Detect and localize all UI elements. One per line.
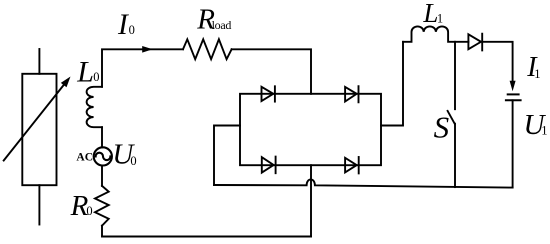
svg-text:1: 1	[437, 11, 443, 25]
variable resistor (surge arrester) top lead	[38, 49, 40, 74]
wire: L0 to AC source	[101, 127, 103, 147]
I0 current arrowhead	[142, 46, 153, 53]
diode D2 triangle (bridge top right)	[345, 87, 357, 102]
svg-text:0: 0	[130, 154, 136, 168]
inductor L0 coil	[87, 87, 102, 127]
switch S blade	[448, 111, 455, 124]
capacitor top plate	[508, 93, 519, 95]
svg-text:0: 0	[129, 23, 135, 37]
wire: bridge right output up to L1	[381, 42, 403, 126]
diode D2 cathode bar	[358, 86, 360, 102]
svg-text:AC: AC	[76, 152, 93, 164]
svg-text:0: 0	[93, 70, 99, 84]
diode D4 cathode bar	[358, 157, 360, 173]
wire: capacitor to mid rail	[512, 100, 514, 187]
wire: D5 to output branch corner	[482, 42, 512, 81]
diode D5 cathode bar	[481, 34, 483, 51]
diode D1 cathode bar	[274, 86, 276, 101]
capacitor bottom plate	[506, 99, 521, 101]
wire: bridge left output to mid rail	[214, 126, 240, 186]
wire: top-left horizontal from source branch to R_load	[102, 49, 183, 87]
AC source U0 circle	[94, 147, 112, 165]
svg-text:load: load	[212, 18, 232, 32]
wire: bridge bottom center down to bottom rail	[310, 165, 312, 236]
wire: bottom rail	[102, 236, 311, 238]
resistor Rload zigzag	[183, 39, 232, 59]
wire: mid rail with crossover hop	[214, 179, 513, 187]
svg-text:S: S	[434, 110, 450, 145]
variable resistor arrowhead	[61, 77, 71, 88]
diode D5 triangle (freewheel)	[468, 34, 481, 49]
wire: AC source to R0	[101, 166, 103, 186]
diode D1 triangle (bridge top left)	[262, 87, 274, 101]
svg-text:1: 1	[541, 124, 547, 138]
svg-text:L: L	[76, 56, 94, 89]
diode D4 triangle (bridge bottom right)	[345, 158, 357, 173]
I1 current arrowhead	[510, 81, 516, 91]
svg-text:1: 1	[534, 67, 540, 81]
variable resistor bottom lead	[38, 185, 40, 224]
switch S upper lead	[454, 42, 456, 109]
svg-text:0: 0	[86, 204, 92, 218]
diode D3 cathode bar	[275, 157, 277, 174]
variable resistor body	[22, 74, 56, 185]
switch S lower lead	[454, 124, 456, 187]
resistor R0 zigzag	[95, 186, 109, 226]
bridge rectifier frame	[240, 94, 381, 165]
AC source sine wave	[96, 153, 111, 160]
inductor L1 coil	[403, 26, 468, 41]
variable resistor arrow shaft	[4, 84, 65, 161]
wire: Rload to bridge top corner	[232, 49, 311, 94]
svg-text:I: I	[117, 9, 129, 41]
diode D3 triangle (bridge bottom left)	[262, 157, 274, 172]
wire: R0 to bottom rail	[101, 226, 103, 237]
